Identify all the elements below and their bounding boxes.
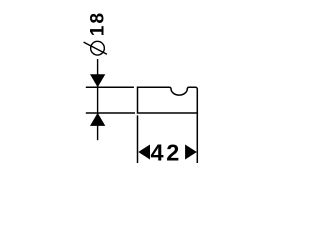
svg-text:42: 42: [151, 140, 183, 166]
svg-text:18: 18: [88, 11, 109, 36]
